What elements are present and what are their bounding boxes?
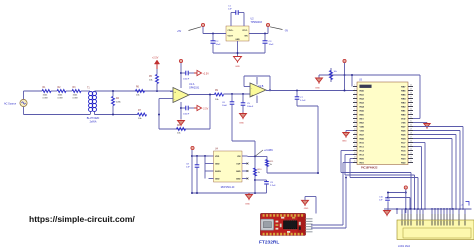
svg-text:20: 20 — [354, 161, 356, 163]
svg-text:17: 17 — [354, 149, 356, 151]
svg-text:25: 25 — [410, 145, 412, 147]
svg-text:15: 15 — [354, 141, 356, 143]
svg-text:OPA2191: OPA2191 — [189, 87, 200, 90]
svg-text:26: 26 — [410, 141, 412, 143]
svg-text:RB6: RB6 — [401, 91, 406, 93]
svg-text:CFLY-: CFLY- — [242, 30, 248, 32]
svg-text:RA5: RA5 — [360, 110, 365, 113]
svg-text:RD3: RD3 — [401, 159, 406, 161]
svg-text:GND: GND — [236, 171, 241, 173]
svg-text:33: 33 — [410, 113, 412, 115]
svg-text:24: 24 — [410, 149, 412, 151]
svg-text:2: 2 — [354, 89, 355, 91]
svg-text:31: 31 — [410, 121, 412, 123]
svg-text:VSS: VSS — [360, 131, 365, 133]
svg-text:+5V: +5V — [177, 31, 182, 33]
svg-text:RB5: RB5 — [401, 95, 406, 97]
svg-text:RD1: RD1 — [360, 163, 365, 165]
svg-text:RC2: RC2 — [360, 151, 365, 153]
svg-text:11: 11 — [354, 125, 356, 127]
svg-text:2.2uF: 2.2uF — [270, 185, 276, 187]
svg-text:32: 32 — [410, 117, 412, 119]
svg-text:GND: GND — [315, 88, 320, 90]
svg-text:LCD1 16x2: LCD1 16x2 — [398, 245, 411, 248]
svg-text:GND: GND — [304, 208, 309, 210]
svg-text:+2.5V: +2.5V — [203, 73, 210, 76]
svg-text:MCP1501-20: MCP1501-20 — [221, 187, 235, 189]
svg-text:7: 7 — [354, 109, 355, 111]
svg-text:GND: GND — [236, 179, 241, 181]
svg-text:35: 35 — [410, 105, 412, 107]
svg-text:RB4: RB4 — [401, 98, 406, 101]
svg-text:RB2: RB2 — [401, 107, 406, 109]
svg-text:RC6: RC6 — [401, 147, 406, 149]
svg-text:12: 12 — [354, 129, 356, 131]
svg-text:GND: GND — [235, 39, 240, 41]
svg-text:1uF: 1uF — [186, 167, 190, 169]
svg-text:AC Source: AC Source — [4, 102, 17, 105]
svg-text:22: 22 — [410, 157, 412, 159]
svg-text:RD2: RD2 — [401, 163, 406, 165]
svg-text:RC0: RC0 — [360, 143, 365, 145]
svg-text:+2.5V: +2.5V — [152, 57, 159, 60]
svg-text:39: 39 — [410, 89, 412, 91]
svg-text:RA0: RA0 — [360, 90, 365, 93]
svg-text:RC3: RC3 — [360, 155, 365, 157]
svg-text:10: 10 — [354, 121, 356, 123]
svg-text:GND: GND — [245, 204, 250, 206]
svg-text:RB0: RB0 — [401, 115, 406, 117]
svg-text:+2.048V: +2.048V — [264, 149, 273, 152]
svg-text:FT232RL: FT232RL — [259, 240, 279, 246]
svg-text:GND: GND — [215, 179, 220, 181]
svg-text:BL-PT202D: BL-PT202D — [87, 117, 100, 120]
svg-text:34: 34 — [410, 109, 412, 111]
svg-text:RC7: RC7 — [401, 143, 406, 145]
svg-text:TPS60403: TPS60403 — [251, 21, 263, 24]
svg-text:14: 14 — [354, 137, 356, 139]
svg-text:10uF: 10uF — [222, 105, 228, 107]
svg-text:10uF: 10uF — [269, 44, 275, 46]
svg-text:0.1uF: 0.1uF — [300, 100, 306, 102]
svg-text:100nF: 100nF — [247, 106, 254, 108]
svg-text:-2.5V: -2.5V — [203, 108, 209, 111]
svg-text:5: 5 — [354, 101, 355, 103]
svg-text:10uF: 10uF — [216, 44, 222, 46]
svg-text:29: 29 — [410, 129, 412, 131]
svg-text:30: 30 — [410, 125, 412, 127]
svg-text:RA4: RA4 — [360, 106, 365, 109]
svg-text:CFLY+: CFLY+ — [228, 30, 235, 32]
svg-text:https://simple-circuit.com/: https://simple-circuit.com/ — [29, 214, 135, 224]
svg-text:19: 19 — [354, 157, 356, 159]
svg-text:SHDN: SHDN — [215, 171, 221, 173]
svg-text:U1:B: U1:B — [258, 85, 264, 88]
svg-text:GND: GND — [239, 123, 244, 125]
svg-text:RC1: RC1 — [360, 147, 365, 149]
svg-text:RD0: RD0 — [360, 159, 365, 161]
svg-text:VDD: VDD — [360, 127, 365, 129]
svg-text:21: 21 — [410, 161, 412, 163]
svg-text:RC5: RC5 — [401, 151, 406, 153]
svg-text:-5V: -5V — [285, 31, 289, 33]
svg-text:40: 40 — [410, 85, 412, 87]
svg-text:RB1: RB1 — [401, 111, 406, 113]
svg-text:100nF: 100nF — [183, 79, 190, 81]
svg-text:RD6: RD6 — [401, 131, 406, 133]
svg-text:-: - — [251, 86, 252, 90]
svg-text:VIN: VIN — [237, 156, 241, 158]
svg-text:RD4: RD4 — [401, 138, 406, 141]
svg-text:1uF: 1uF — [228, 9, 232, 11]
svg-text:9: 9 — [354, 117, 355, 119]
svg-text:GND: GND — [215, 164, 220, 166]
svg-text:27: 27 — [410, 137, 412, 139]
svg-text:4: 4 — [354, 97, 355, 99]
svg-text:36: 36 — [410, 101, 412, 103]
svg-text:RB3: RB3 — [401, 103, 406, 105]
svg-text:6: 6 — [354, 105, 355, 107]
svg-text:VDD: VDD — [401, 119, 406, 121]
svg-text:RC4: RC4 — [401, 154, 406, 157]
svg-text:13: 13 — [354, 133, 356, 135]
svg-text:8: 8 — [354, 113, 355, 115]
svg-text:GND: GND — [235, 66, 240, 68]
svg-text:RA3: RA3 — [360, 102, 365, 105]
svg-text:3: 3 — [354, 93, 355, 95]
svg-text:RB7: RB7 — [401, 87, 406, 89]
svg-text:GND: GND — [342, 141, 347, 143]
svg-text:RA1: RA1 — [360, 94, 365, 97]
svg-text:37: 37 — [410, 97, 412, 99]
svg-text:2x6VA: 2x6VA — [90, 121, 97, 124]
svg-text:RA7: RA7 — [360, 134, 365, 137]
svg-text:1: 1 — [354, 85, 355, 87]
svg-text:RD7: RD7 — [401, 127, 406, 129]
svg-text:-: - — [174, 98, 175, 102]
svg-text:RD5: RD5 — [401, 135, 406, 137]
svg-text:18: 18 — [354, 153, 356, 155]
svg-text:RA2: RA2 — [360, 98, 365, 101]
svg-text:VSS: VSS — [401, 123, 406, 125]
svg-text:38: 38 — [410, 93, 412, 95]
svg-text:16: 16 — [354, 145, 356, 147]
svg-text:VOUT: VOUT — [228, 36, 234, 38]
svg-text:VDD: VDD — [215, 156, 220, 158]
svg-text:23: 23 — [410, 153, 412, 155]
svg-text:RA6: RA6 — [360, 138, 365, 141]
svg-text:PIC18F46K22: PIC18F46K22 — [361, 165, 378, 169]
svg-text:28: 28 — [410, 133, 412, 135]
svg-text:100nF: 100nF — [183, 114, 190, 116]
